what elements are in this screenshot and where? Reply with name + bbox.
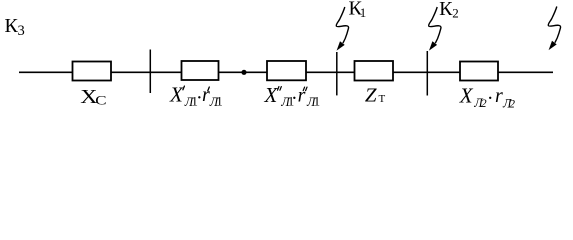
label ZT xyxy=(365,85,386,106)
fault arrow at line end xyxy=(548,7,560,51)
label XЛ2·rЛ2 xyxy=(459,83,515,110)
label XЛ1'·rЛ1' xyxy=(169,82,223,109)
svg-text:X: X xyxy=(264,83,279,107)
fault arrow K2 xyxy=(429,7,441,51)
svg-text:К: К xyxy=(5,15,19,37)
fault arrow K1 xyxy=(336,7,348,51)
resistor box ZT xyxy=(355,61,394,81)
svg-text:2: 2 xyxy=(509,96,515,110)
label K3 xyxy=(5,15,25,39)
node tick 3 xyxy=(426,51,428,96)
label K1 xyxy=(349,0,367,20)
node tick 2 xyxy=(336,52,338,95)
junction dot xyxy=(241,70,246,75)
wire xyxy=(19,71,553,73)
svg-text:·: · xyxy=(487,88,494,110)
node tick 1 xyxy=(149,50,151,94)
svg-text:r: r xyxy=(495,85,503,107)
svg-text:1: 1 xyxy=(216,94,223,109)
resistor box XЛ1'' xyxy=(267,61,306,80)
svg-text:1: 1 xyxy=(360,5,367,20)
svg-text:Z: Z xyxy=(365,85,377,106)
svg-text:X: X xyxy=(169,82,184,106)
svg-text:К: К xyxy=(439,0,453,20)
svg-text:X: X xyxy=(459,83,474,107)
label XC xyxy=(80,85,106,108)
svg-text:2: 2 xyxy=(481,96,487,110)
svg-text:2: 2 xyxy=(452,6,459,21)
resistor box XC xyxy=(73,62,112,81)
svg-text:Т: Т xyxy=(379,93,386,105)
svg-text:1: 1 xyxy=(314,94,321,109)
svg-text:С: С xyxy=(95,94,106,108)
label K2 xyxy=(439,0,459,21)
resistor box XЛ1' xyxy=(182,61,219,80)
resistor box XЛ2 xyxy=(460,62,498,81)
label XЛ1''·rЛ1'' xyxy=(264,83,321,109)
svg-text:3: 3 xyxy=(18,23,25,39)
